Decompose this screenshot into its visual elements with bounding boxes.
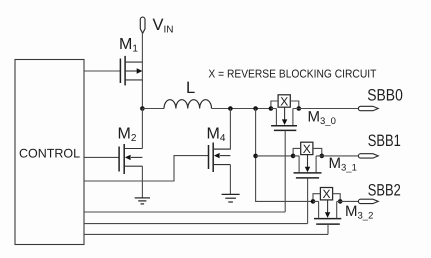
wire: M3_0 gate down to bus1 (284, 130, 286, 212)
node A dot (140, 106, 145, 111)
reverse blocking box X (cell2) (301, 142, 313, 156)
svg-text:M2: M2 (118, 126, 137, 145)
wire: control to M4 gate (jog) (84, 156, 209, 181)
transistor M3_0 (271, 107, 299, 130)
transistor M4 (209, 143, 231, 173)
svg-text:X: X (322, 187, 330, 201)
node cell1 right dot (297, 106, 302, 111)
control block (15, 60, 84, 245)
svg-text:X = REVERSE BLOCKING CIRCUIT: X = REVERSE BLOCKING CIRCUIT (208, 69, 376, 81)
wire: X box right connector (cell3) (333, 194, 341, 202)
Vin terminal (140, 17, 145, 33)
node: bus tap dot at rail (253, 106, 258, 111)
wire: bus2 control to M3_1 gate (84, 223, 308, 225)
SBB1 terminal (358, 154, 378, 158)
svg-text:M1: M1 (119, 36, 138, 55)
wire: bus1 control to M3_0 gate (84, 211, 285, 213)
svg-text:SBB2: SBB2 (368, 181, 401, 199)
ground under M4 (222, 194, 240, 202)
wire: X box right connector (cell1) (290, 101, 299, 109)
wire: vertical bus down to cell3 level (256, 109, 313, 202)
SBB2 terminal (358, 199, 378, 203)
svg-text:X: X (280, 94, 288, 108)
svg-text:SBB0: SBB0 (367, 87, 403, 105)
node cell3 left dot (311, 199, 316, 204)
svg-text:M4: M4 (207, 126, 226, 145)
node cell2 left dot (291, 154, 296, 159)
wire: M3_2 gate down to bus3 (327, 224, 329, 234)
wire: inductor to cell1 left dot (212, 108, 271, 110)
wire: control to M2 gate (84, 156, 119, 158)
wire: M4 drain drop (213, 109, 230, 150)
node cell3 right dot (338, 199, 343, 204)
svg-text:M3_0: M3_0 (308, 109, 336, 128)
node cell2 right dot (320, 154, 325, 159)
node: bus tap dot cell2 (253, 154, 258, 159)
node cell1 left dot (269, 106, 274, 111)
wire: cell3 to SBB2 terminal (340, 200, 359, 202)
svg-text:CONTROL: CONTROL (19, 147, 80, 161)
node: L right / M4 drain dot (228, 106, 233, 111)
wire: M2 source to ground (141, 166, 143, 197)
wire: M4 source to ground (229, 165, 231, 194)
transistor M1 (PMOS high side) (120, 56, 142, 86)
transistor M3_1 (293, 155, 322, 178)
wire: X box left connector (cell2) (293, 148, 301, 156)
wire: bus3 control to M3_2 gate (84, 233, 328, 235)
wire: control to M1 gate (84, 70, 120, 72)
svg-text:M3_2: M3_2 (345, 203, 373, 222)
transistor M2 (119, 144, 142, 174)
wire: node A down to M2 drain (141, 109, 143, 149)
wire: node A to inductor (142, 108, 164, 110)
svg-text:L: L (186, 79, 195, 97)
wire: X box left connector (cell1) (271, 101, 278, 109)
wire: cell1 to SBB0 terminal (299, 108, 359, 110)
SBB0 terminal (358, 106, 378, 110)
wire: X box left connector (cell3) (313, 194, 320, 202)
wire: cell2 to SBB1 terminal (322, 155, 359, 157)
wire: Vin to node A (through M1) (141, 33, 143, 108)
reverse blocking box X (cell1) (278, 94, 290, 108)
svg-text:VIN: VIN (153, 16, 174, 36)
transistor M3_2 (313, 200, 341, 224)
reverse blocking box X (cell3) (320, 187, 332, 201)
inductor L (164, 100, 212, 109)
svg-text:X: X (303, 142, 311, 156)
wire: X box right connector (cell2) (313, 148, 322, 156)
svg-text:M3_1: M3_1 (329, 155, 357, 174)
svg-text:SBB1: SBB1 (368, 132, 401, 150)
wire: bus to cell2 left dot (256, 155, 294, 157)
ground under M2 (135, 198, 150, 204)
wire: M3_1 gate down to bus2 (307, 178, 309, 224)
